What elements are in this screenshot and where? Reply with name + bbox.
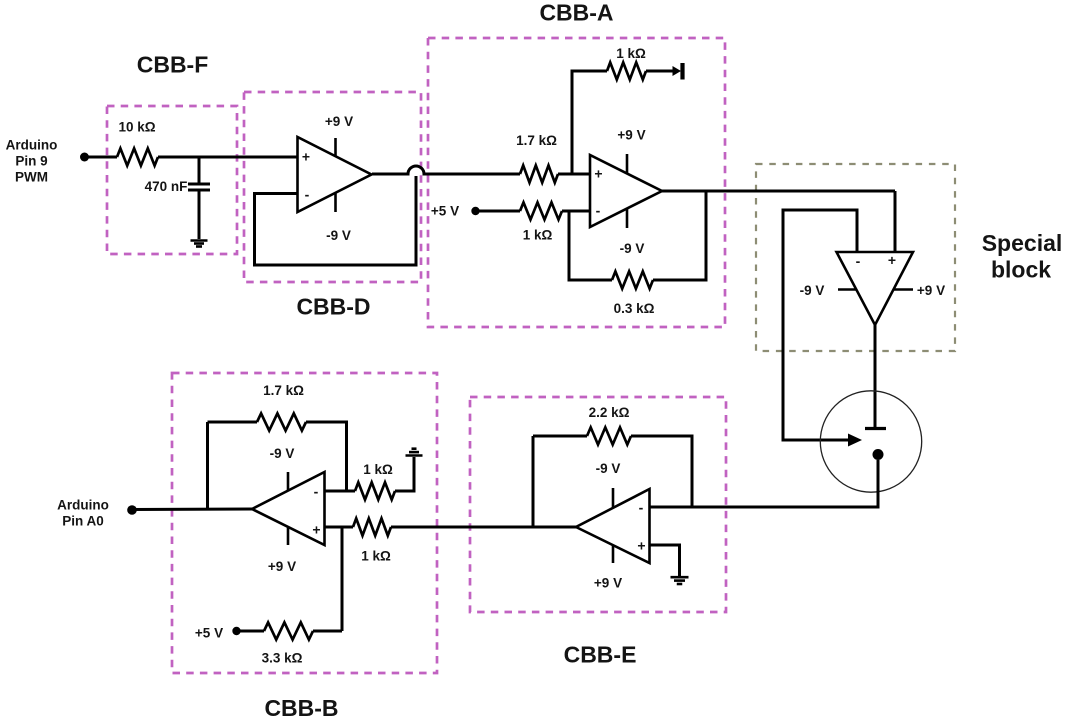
node +5V dot CBB-B xyxy=(232,627,240,635)
ground op-amp E + xyxy=(671,576,689,579)
op-amp A xyxy=(590,155,662,227)
ground below capacitor xyxy=(191,239,208,242)
block outline CBB-D xyxy=(244,92,421,282)
op-amp D xyxy=(298,137,372,212)
svg-text:+9 V: +9 V xyxy=(594,576,622,591)
wire branch down to 3.3k xyxy=(341,527,344,631)
block outline CBB-B xyxy=(172,373,437,673)
wire feedback B right down xyxy=(306,422,347,491)
capacitor 470 nF xyxy=(198,157,201,183)
wire feedback B left xyxy=(208,421,258,424)
block outline CBB-F xyxy=(107,106,237,254)
svg-text:+: + xyxy=(888,252,896,268)
svg-text:3.3 kΩ: 3.3 kΩ xyxy=(262,651,303,666)
svg-text:-9 V: -9 V xyxy=(800,283,825,298)
svg-text:1.7 kΩ: 1.7 kΩ xyxy=(263,383,304,398)
resistor 1 kOhm top xyxy=(607,62,646,79)
block outline CBB-A xyxy=(428,38,725,327)
power stub -9V op-amp B xyxy=(287,472,290,491)
wire +5V to R 3.3k xyxy=(237,630,265,633)
wire feedback branch down xyxy=(569,211,612,280)
op-amp B (points left) xyxy=(252,472,325,545)
wire R1.7k to op-amp A + xyxy=(558,173,590,176)
svg-text:CBB-B: CBB-B xyxy=(264,695,338,720)
resistor 3.3 kOhm xyxy=(264,622,313,639)
op-amp E (points left) xyxy=(576,489,650,563)
svg-text:+9 V: +9 V xyxy=(268,559,296,574)
svg-text:Arduino: Arduino xyxy=(6,138,58,153)
wire feedback E left xyxy=(533,435,587,438)
wire feedback E right xyxy=(631,436,692,507)
wire op-amp A output to special block xyxy=(662,190,895,193)
block outline Special block xyxy=(756,164,955,351)
svg-text:1.7 kΩ: 1.7 kΩ xyxy=(516,133,557,148)
block outline CBB-E xyxy=(470,397,726,612)
resistor 1 kOhm noninverting B xyxy=(353,518,391,535)
termination symbol top right CBB-A xyxy=(673,66,682,76)
wire R 1k up to inverted ground xyxy=(395,457,414,491)
svg-text:-: - xyxy=(305,187,310,203)
power stub +9V op-amp B xyxy=(287,527,290,545)
resistor 1.7 kOhm xyxy=(520,165,558,182)
resistor 0.3 kOhm feedback xyxy=(612,271,653,288)
svg-text:Pin A0: Pin A0 xyxy=(62,514,104,529)
svg-text:+9 V: +9 V xyxy=(617,128,645,143)
svg-text:-: - xyxy=(856,253,861,269)
power stub -9V special xyxy=(838,288,857,291)
svg-text:-: - xyxy=(596,203,601,219)
wire op-amp E output to R 1k xyxy=(391,526,576,529)
wire down to + input special op-amp xyxy=(894,191,897,252)
power stub +9V op-amp D xyxy=(334,138,337,157)
svg-text:-9 V: -9 V xyxy=(596,461,621,476)
wire R to op-amp B + xyxy=(325,526,354,529)
svg-text:470 nF: 470 nF xyxy=(145,179,188,194)
svg-text:CBB-F: CBB-F xyxy=(137,52,209,78)
svg-text:-9 V: -9 V xyxy=(326,228,351,243)
measurement circle xyxy=(820,391,921,492)
wire node to op-amp E - xyxy=(650,460,878,507)
wire R 3.3k to branch xyxy=(313,630,342,633)
svg-text:-9 V: -9 V xyxy=(270,446,295,461)
wire feedback B left down xyxy=(206,422,209,510)
resistor 2.2 kOhm feedback xyxy=(587,427,631,444)
svg-text:PWM: PWM xyxy=(15,170,48,185)
resistor 10 kOhm xyxy=(117,148,158,165)
node input terminal dot xyxy=(80,153,89,162)
ground inverted CBB-B xyxy=(406,454,423,457)
svg-text:block: block xyxy=(991,257,1051,283)
power stub +9V op-amp A xyxy=(626,154,629,174)
wire op-amp B - to R 1k xyxy=(325,490,356,493)
resistor 1 kOhm inverting B xyxy=(355,482,395,499)
svg-text:+: + xyxy=(312,522,320,538)
resistor 1.7 kOhm feedback B xyxy=(257,413,306,430)
svg-text:1 kΩ: 1 kΩ xyxy=(361,549,391,564)
svg-text:1 kΩ: 1 kΩ xyxy=(523,228,553,243)
svg-text:+: + xyxy=(302,149,310,165)
svg-text:+5 V: +5 V xyxy=(431,204,459,219)
svg-text:+: + xyxy=(594,166,602,182)
svg-text:1 kΩ: 1 kΩ xyxy=(616,46,646,61)
power stub -9V op-amp A xyxy=(626,209,629,229)
node output terminal dot xyxy=(127,505,137,515)
svg-text:+9 V: +9 V xyxy=(917,283,945,298)
svg-text:+5 V: +5 V xyxy=(195,626,223,641)
power stub -9V op-amp E xyxy=(612,488,615,508)
wire feedback E left down xyxy=(532,436,535,527)
wire special output down xyxy=(874,325,877,427)
wire branch to top R 1k xyxy=(572,71,607,174)
svg-text:Pin 9: Pin 9 xyxy=(15,154,47,169)
wire R 10k to op-amp D, junction at capacitor xyxy=(158,156,298,159)
svg-text:1 kΩ: 1 kΩ xyxy=(363,462,393,477)
svg-text:2.2 kΩ: 2.2 kΩ xyxy=(589,405,630,420)
node dot inside circle xyxy=(873,449,884,460)
wire - input feedback loop to arrow xyxy=(783,210,857,440)
wire follower feedback op-amp D xyxy=(255,176,417,265)
wire +5V to R 1k xyxy=(476,210,521,213)
svg-text:0.3 kΩ: 0.3 kΩ xyxy=(614,301,655,316)
svg-text:10 kΩ: 10 kΩ xyxy=(118,120,155,135)
op-amp special (points down) xyxy=(837,252,914,325)
svg-text:-9 V: -9 V xyxy=(620,241,645,256)
svg-text:-: - xyxy=(639,499,644,515)
probe tip bar xyxy=(865,427,886,430)
svg-text:CBB-A: CBB-A xyxy=(539,0,613,26)
svg-text:Arduino: Arduino xyxy=(57,498,109,513)
wire op-amp E + to ground xyxy=(650,545,680,576)
power stub -9V op-amp D xyxy=(334,193,337,212)
wire op-amp D output with hop xyxy=(372,166,520,174)
svg-text:+: + xyxy=(637,538,645,554)
svg-text:CBB-D: CBB-D xyxy=(296,294,370,320)
node +5V dot CBB-A xyxy=(471,207,479,215)
wire input to R 10k xyxy=(85,156,118,159)
power stub +9V op-amp E xyxy=(612,545,615,563)
wire R1k to op-amp A - xyxy=(562,210,590,213)
svg-text:Special: Special xyxy=(982,230,1063,256)
svg-text:-: - xyxy=(314,484,319,500)
arrowhead into circle node xyxy=(848,434,862,447)
wire feedback up to output xyxy=(653,191,706,280)
power stub +9V special xyxy=(894,288,914,291)
svg-text:+9 V: +9 V xyxy=(325,114,353,129)
wire R1k to termination xyxy=(646,70,676,73)
svg-text:CBB-E: CBB-E xyxy=(564,642,637,668)
wire op-amp B output to Arduino Pin A0 xyxy=(132,508,252,512)
resistor 1 kOhm inverting input xyxy=(520,202,562,219)
